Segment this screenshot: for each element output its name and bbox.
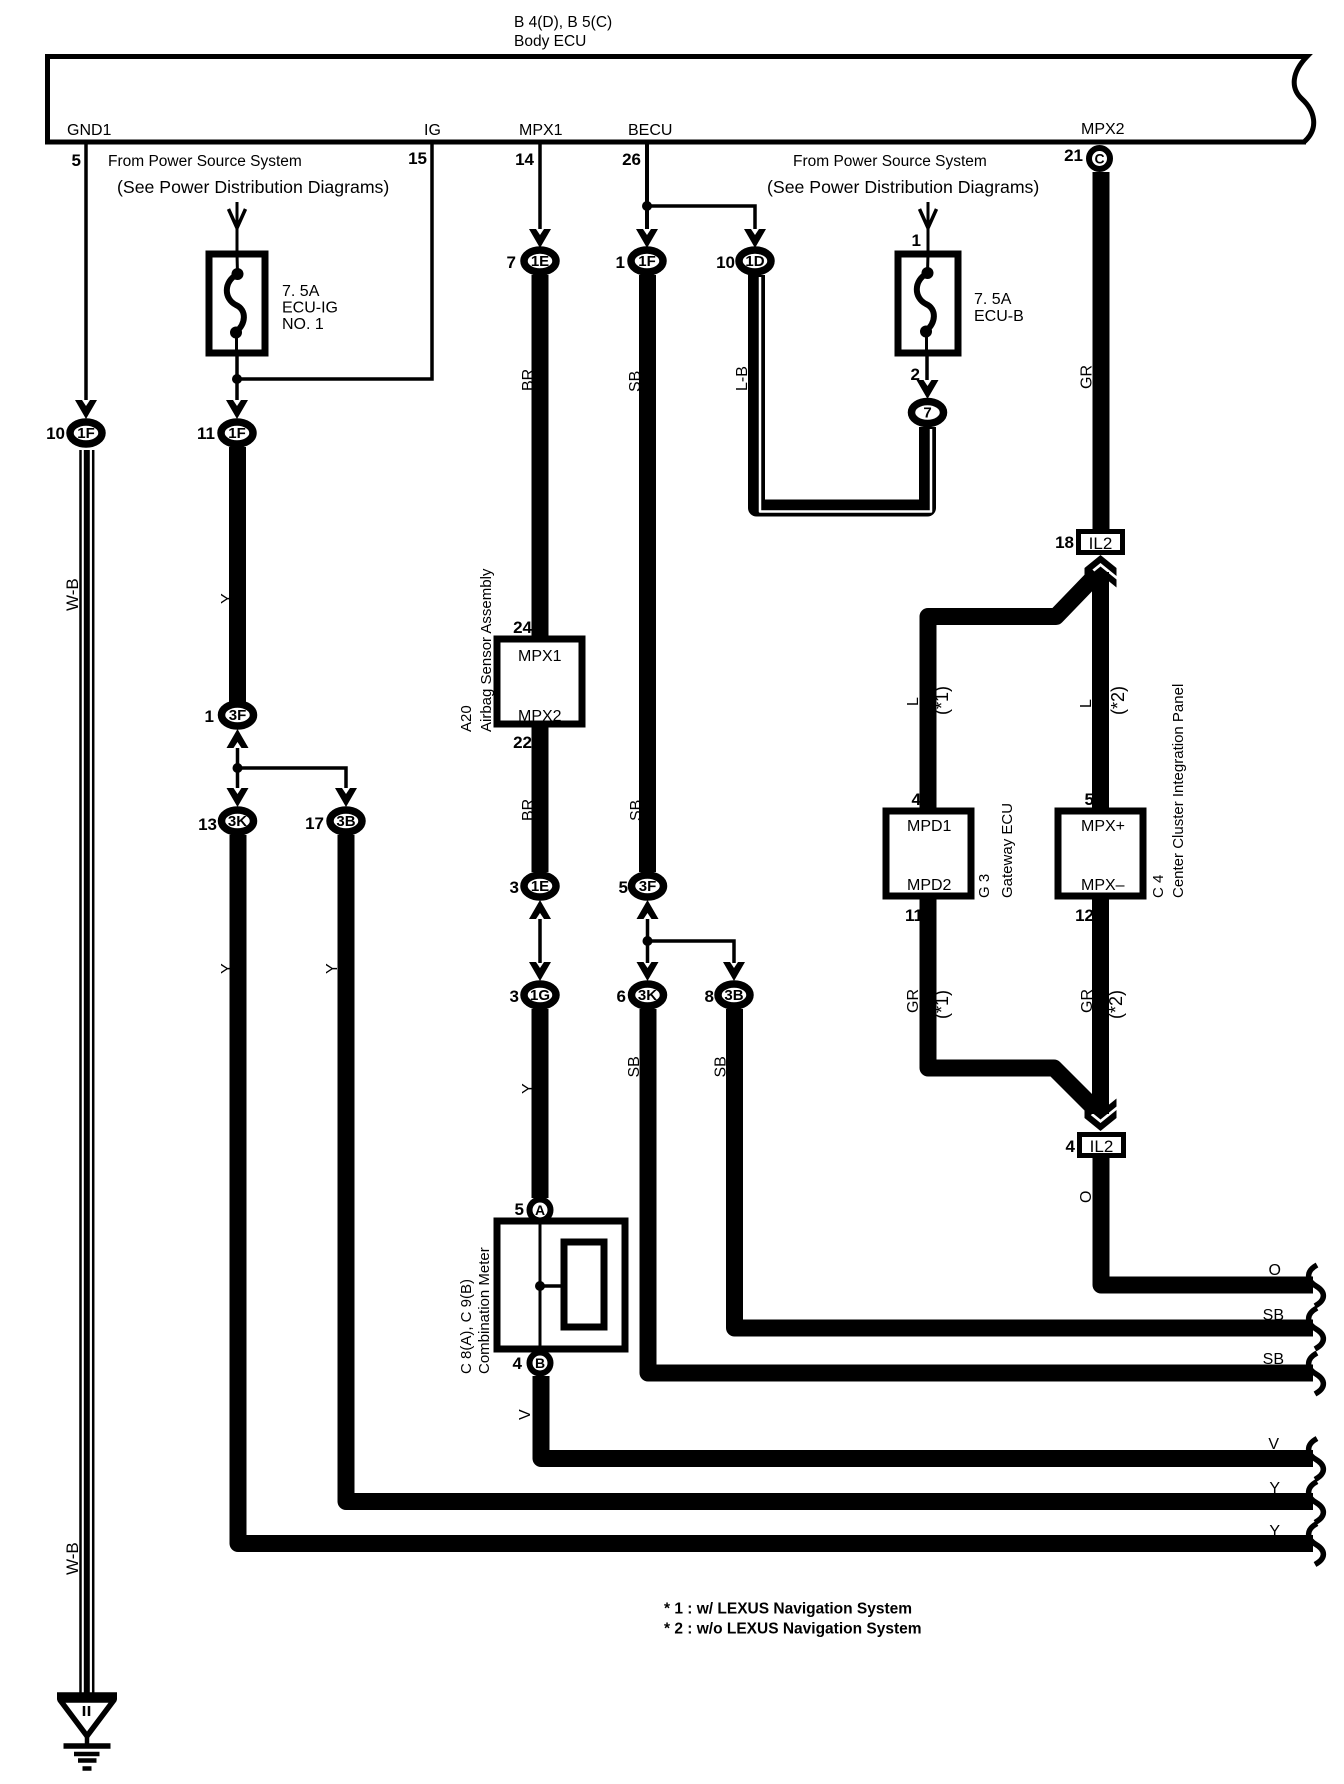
label From Power Source System (right) (767, 153, 1039, 197)
label O on wire (1078, 1191, 1095, 1203)
connector 1D (10) (739, 250, 771, 272)
svg-text:* 1 : w/ LEXUS Navigation Syst: * 1 : w/ LEXUS Navigation System (664, 1601, 912, 1618)
pin 4 number (B) (513, 1354, 523, 1373)
ground IK1 symbol (57, 1696, 117, 1769)
svg-text:1E: 1E (531, 878, 549, 895)
svg-text:L: L (905, 697, 922, 706)
label A20 Airbag Sensor Assembly (458, 568, 495, 732)
pin IG label (424, 122, 441, 139)
label Y right 1 (1269, 1480, 1280, 1497)
label Y on 3B wire (324, 963, 341, 974)
svg-text:G 3: G 3 (976, 874, 993, 898)
pin 1 number (3F) (205, 707, 214, 726)
svg-text:8: 8 (705, 987, 714, 1006)
svg-text:ECU-B: ECU-B (974, 308, 1024, 325)
connector IL2 (4) (1080, 1135, 1124, 1157)
svg-text:5: 5 (619, 878, 628, 897)
svg-text:3: 3 (510, 987, 519, 1006)
pin 26 number (622, 150, 641, 169)
torn end SB 1 (1309, 1308, 1324, 1349)
pin MPX1 label (519, 122, 563, 139)
wire W-B shielded (81, 450, 94, 1693)
wire fuse output to junction (235, 356, 239, 400)
svg-text:(*2): (*2) (1108, 686, 1128, 715)
node 3F(5) branch junction (643, 936, 653, 946)
svg-text:(*2): (*2) (1106, 990, 1126, 1019)
svg-text:5: 5 (515, 1200, 524, 1219)
connector A (5) (530, 1200, 551, 1221)
label GR (*1) (905, 989, 952, 1019)
pin 5 number (72, 151, 81, 170)
wire SB from 3B(8) to right edge (735, 1009, 1314, 1328)
svg-text:SB: SB (713, 1056, 730, 1077)
ECU A20 Airbag Sensor Assembly box (497, 639, 582, 724)
svg-text:10: 10 (46, 424, 65, 443)
svg-text:4: 4 (1066, 1137, 1076, 1156)
pin 8 number (705, 987, 714, 1006)
connector 1F (10) (70, 422, 102, 444)
arrow into 3K(13) (227, 788, 249, 807)
svg-text:22: 22 (513, 733, 532, 752)
svg-text:3F: 3F (229, 707, 247, 724)
svg-text:V: V (1268, 1436, 1279, 1453)
wire 3F(5) to 3K(6) (646, 919, 650, 963)
svg-text:7: 7 (507, 253, 516, 272)
svg-text:1: 1 (912, 231, 921, 250)
arrow into connector 1F(10) (75, 400, 97, 419)
svg-text:O: O (1078, 1191, 1095, 1203)
svg-text:W-B: W-B (63, 578, 82, 611)
svg-text:4: 4 (912, 790, 922, 809)
wire Y from 3K(13) to right edge (238, 835, 1313, 1544)
connector IL2 (18) (1079, 532, 1123, 554)
label GR (*2) (1079, 989, 1126, 1019)
node 3F branch junction (233, 763, 243, 773)
pin 4 number (IL2) (1066, 1137, 1076, 1156)
node fuse-IG junction (232, 374, 242, 384)
connector 1F (1) (631, 250, 663, 272)
pin 14 number (515, 150, 534, 169)
label fuse ECU-IG value (282, 283, 338, 333)
wire branch to 3B(17) (238, 768, 347, 788)
svg-text:Y: Y (324, 963, 341, 974)
pin 4 number (MPD1) (912, 790, 922, 809)
svg-text:Y: Y (219, 963, 236, 974)
svg-text:A20: A20 (458, 705, 475, 732)
svg-text:7. 5A: 7. 5A (282, 283, 320, 300)
svg-text:6: 6 (617, 987, 626, 1006)
wire 3F to 3K/3B junction (236, 748, 240, 788)
wire SB from 3K(6) to right edge (648, 1009, 1313, 1373)
svg-text:12: 12 (1075, 906, 1094, 925)
arrow up into 3F(1) (227, 729, 249, 748)
svg-text:SB: SB (628, 800, 645, 821)
arrow into 3B(17) (335, 788, 357, 807)
label C8(A) C9(B) Combination Meter (458, 1247, 493, 1374)
arrow into 1G(3) (529, 962, 551, 981)
wire BR airbag to 1E(3) (532, 727, 549, 872)
svg-text:1E: 1E (531, 253, 549, 270)
label Y on 3K wire (219, 963, 236, 974)
svg-text:V: V (517, 1409, 534, 1420)
wire branch to 1D(10) (647, 206, 755, 229)
svg-text:MPD1: MPD1 (907, 818, 952, 835)
chevron arrow up into IL2(18) (1085, 555, 1117, 588)
wire SB 1F(1) to 3F(5) (639, 275, 656, 872)
node BECU junction (642, 201, 652, 211)
svg-text:11: 11 (197, 424, 215, 443)
svg-text:26: 26 (622, 150, 641, 169)
svg-text:(*1): (*1) (932, 990, 952, 1019)
svg-text:Y: Y (520, 1083, 537, 1094)
pin 11 number (197, 424, 215, 443)
svg-text:MPX2: MPX2 (1081, 121, 1125, 138)
label fuse ECU-B value (974, 291, 1024, 325)
wire branch to 3B(8) (648, 941, 735, 963)
svg-text:1F: 1F (228, 425, 246, 442)
svg-text:3F: 3F (639, 878, 657, 895)
arrow into 3B(8) (723, 962, 745, 981)
connector 1G (3) (524, 984, 556, 1006)
svg-text:Gateway ECU: Gateway ECU (999, 803, 1016, 898)
pin 15 number (408, 149, 427, 168)
wire BECU pin 26 (645, 144, 649, 229)
connector C (21) (1089, 148, 1110, 169)
arrow into connector 7 (917, 380, 939, 399)
label O right (1269, 1262, 1281, 1279)
wire 1E(3) to 1G(3) (538, 919, 542, 963)
connector 3B (8) (718, 984, 750, 1006)
wire IG pin 15 (237, 144, 432, 379)
svg-text:18: 18 (1055, 533, 1074, 552)
svg-text:1F: 1F (77, 425, 95, 442)
svg-text:SB: SB (626, 1056, 643, 1077)
svg-text:BECU: BECU (628, 122, 672, 139)
pin GND1 label (67, 122, 112, 139)
svg-text:10: 10 (716, 253, 735, 272)
label MPD2 (907, 877, 952, 894)
arrow into connector 1F(11) (226, 400, 248, 419)
wire fuse ECU-B output (925, 356, 929, 380)
label SB on 3K wire (626, 1056, 643, 1077)
svg-text:3: 3 (510, 878, 519, 897)
ECU C8 Combination Meter box (497, 1221, 625, 1349)
svg-text:7: 7 (923, 405, 931, 422)
pin 12 number (MPX-) (1075, 906, 1094, 925)
arrow up into 3F(5) (637, 900, 659, 919)
svg-text:3K: 3K (228, 813, 247, 830)
label Y upper (219, 593, 236, 604)
svg-text:From Power Source System: From Power Source System (793, 153, 987, 170)
svg-text:IG: IG (424, 122, 441, 139)
svg-text:Combination Meter: Combination Meter (476, 1247, 493, 1374)
connector 3K (6) (632, 984, 664, 1006)
label SB upper (627, 371, 644, 392)
pin 5 number (MPX+) (1085, 790, 1094, 809)
svg-text:SB: SB (1263, 1307, 1284, 1324)
label V right (1268, 1436, 1279, 1453)
pin 7 number (507, 253, 516, 272)
svg-text:SB: SB (1263, 1351, 1284, 1368)
svg-text:1: 1 (616, 253, 625, 272)
svg-text:3B: 3B (724, 987, 743, 1004)
wire Y 1G to combination meter (532, 1009, 549, 1198)
wire GND1 pin 5 (84, 144, 88, 400)
pin 22 number (513, 733, 532, 752)
connector 3K (13) (222, 810, 254, 832)
svg-text:From Power Source System: From Power Source System (108, 153, 302, 170)
wire inside meter (539, 1223, 542, 1350)
wire GR from C to IL2(18) (1093, 172, 1110, 531)
connector 3F (1) (222, 704, 254, 726)
svg-text:13: 13 (198, 815, 217, 834)
label MPX+ (1081, 818, 1125, 835)
svg-text:4: 4 (513, 1354, 523, 1373)
label SB on 3B wire (713, 1056, 730, 1077)
connector 3B (17) (330, 810, 362, 832)
label W-B lower (63, 1542, 82, 1575)
pin 10 number (46, 424, 65, 443)
pin 11 number (MPD2) (905, 906, 923, 925)
connector 1E (7) (524, 250, 556, 272)
svg-text:O: O (1269, 1262, 1281, 1279)
torn end O (1309, 1265, 1324, 1306)
pin 24 number (513, 618, 532, 637)
svg-text:1D: 1D (745, 253, 764, 270)
label V on meter output (517, 1409, 534, 1420)
svg-text:C: C (1094, 151, 1104, 167)
svg-text:A: A (535, 1202, 545, 1218)
label SB right 1 (1263, 1307, 1284, 1324)
svg-text:L: L (1078, 699, 1095, 708)
svg-text:MPX2: MPX2 (518, 708, 562, 725)
pin 1 number (1F) (616, 253, 625, 272)
svg-text:MPX+: MPX+ (1081, 818, 1125, 835)
ECU U1 Body ECU box (45, 57, 1314, 145)
svg-text:B 4(D), B 5(C): B 4(D), B 5(C) (514, 14, 612, 31)
chevron arrow down into IL2(4) (1085, 1099, 1117, 1132)
label Y on meter wire (520, 1083, 537, 1094)
svg-text:BR: BR (520, 799, 537, 821)
svg-text:17: 17 (305, 814, 324, 833)
label From Power Source System (left) (108, 153, 389, 197)
pin 18 number (1055, 533, 1074, 552)
svg-text:GR: GR (1079, 365, 1096, 389)
label L-B (734, 366, 751, 391)
svg-text:7. 5A: 7. 5A (974, 291, 1012, 308)
svg-text:BR: BR (520, 369, 537, 391)
svg-text:(*1): (*1) (932, 686, 952, 715)
pin 2 number (fuse) (911, 365, 920, 384)
pin 17 number (305, 814, 324, 833)
power feed arrow (right) (920, 202, 937, 254)
svg-text:Y: Y (219, 593, 236, 604)
connector 1E (3) (524, 875, 556, 897)
wire O IL2(4) to right edge (1101, 1158, 1313, 1285)
pin 10 number (1D) (716, 253, 735, 272)
footnote 2 (664, 1621, 922, 1638)
pin 13 number (198, 815, 217, 834)
wire to meter resistor (540, 1284, 564, 1288)
pin 5 number (3F) (619, 878, 628, 897)
footnote 1 (664, 1601, 912, 1618)
svg-text:L-B: L-B (734, 366, 751, 391)
connector 1F (11) (221, 422, 253, 444)
pin 5 number (A) (515, 1200, 524, 1219)
svg-text:ECU-IG: ECU-IG (282, 300, 338, 317)
svg-text:24: 24 (513, 618, 532, 637)
label G3 Gateway ECU (976, 803, 1016, 898)
svg-text:(See Power Distribution Diagra: (See Power Distribution Diagrams) (117, 177, 389, 197)
label MPD1 (907, 818, 952, 835)
torn end Y 1 (1309, 1482, 1324, 1523)
fuse F1 ECU-IG NO.1 (209, 254, 265, 356)
pin 6 number (617, 987, 626, 1006)
ECU G3 Gateway ECU box (886, 811, 971, 896)
label Body ECU title (514, 14, 612, 50)
svg-text:GR: GR (1079, 989, 1096, 1013)
wire BR 1E to airbag box (532, 275, 549, 639)
pin BECU label (628, 122, 672, 139)
connector B (4) (530, 1353, 551, 1374)
label Y right 2 (1269, 1523, 1280, 1540)
label L (*2) (1078, 686, 1128, 715)
svg-text:Y: Y (1269, 1523, 1280, 1540)
label MPX- (1081, 877, 1125, 894)
label BR lower (520, 799, 537, 821)
arrow into connector 1D(10) (744, 229, 766, 248)
svg-text:5: 5 (72, 151, 81, 170)
label GR upper (1079, 365, 1096, 389)
label C4 Center Cluster Integration Panel (1150, 684, 1187, 898)
node meter junction (535, 1281, 545, 1291)
svg-text:GR: GR (905, 989, 922, 1013)
svg-text:1: 1 (205, 707, 214, 726)
svg-text:5: 5 (1085, 790, 1094, 809)
wire V from meter to right edge (541, 1376, 1313, 1459)
svg-text:NO. 1: NO. 1 (282, 316, 324, 333)
label BR upper (520, 369, 537, 391)
svg-text:3K: 3K (638, 987, 657, 1004)
svg-text:GND1: GND1 (67, 122, 112, 139)
arrow up into 1E(3) (529, 900, 551, 919)
label SB right 2 (1263, 1351, 1284, 1368)
power feed arrow (left) (229, 202, 246, 254)
torn end V (1309, 1439, 1324, 1480)
arrow into connector 1F(1) (636, 229, 658, 248)
wire L (*1) branch to MPD1 (928, 574, 1097, 808)
svg-text:C 8(A), C 9(B): C 8(A), C 9(B) (458, 1279, 475, 1374)
svg-text:14: 14 (515, 150, 534, 169)
svg-text:1F: 1F (638, 253, 656, 270)
pin 3 number (1G) (510, 987, 519, 1006)
torn end SB 2 (1309, 1353, 1324, 1394)
svg-text:3B: 3B (336, 813, 355, 830)
label MPX1 in airbag box (518, 648, 562, 665)
svg-text:Center Cluster Integration Pan: Center Cluster Integration Panel (1170, 684, 1187, 898)
connector 7 (912, 402, 944, 424)
arrow into 3K(6) (637, 962, 659, 981)
svg-text:B: B (535, 1355, 545, 1371)
arrow into connector 1E(7) (529, 229, 551, 248)
svg-text:SB: SB (627, 371, 644, 392)
svg-text:MPD2: MPD2 (907, 877, 952, 894)
wire L (*2) IL2 to MPX+ (1092, 572, 1109, 808)
torn end Y 2 (1309, 1524, 1324, 1565)
wire GR (*1) MPD2 to IL2(4) (928, 896, 1096, 1110)
svg-text:Airbag Sensor Assembly: Airbag Sensor Assembly (478, 568, 495, 732)
svg-text:MPX1: MPX1 (519, 122, 563, 139)
wire L-B loop to connector 7 (757, 275, 932, 512)
label L (*1) (905, 686, 952, 715)
svg-text:(See Power Distribution Diagra: (See Power Distribution Diagrams) (767, 177, 1039, 197)
ECU C4 Center Cluster box (1058, 811, 1143, 896)
svg-text:C 4: C 4 (1150, 875, 1167, 898)
pin MPX2 label (1081, 121, 1125, 138)
wire Y from 3B(17) to right edge (346, 835, 1313, 1502)
pin 21 number (1064, 146, 1083, 165)
wire MPX1 pin 14 (538, 144, 542, 229)
svg-text:* 2 : w/o LEXUS Navigation Sys: * 2 : w/o LEXUS Navigation System (664, 1621, 922, 1638)
label MPX2 in airbag box (518, 708, 562, 725)
fuse F2 ECU-B (898, 254, 958, 356)
pin 3 number (1E) (510, 878, 519, 897)
svg-text:MPX1: MPX1 (518, 648, 562, 665)
pin 1 number (fuse) (912, 231, 921, 250)
wire GR (*2) MPX- to IL2(4) (1092, 896, 1109, 1114)
svg-text:IL2: IL2 (1090, 1137, 1114, 1156)
label SB mid (628, 800, 645, 821)
svg-text:1G: 1G (530, 987, 550, 1004)
svg-text:MPX–: MPX– (1081, 877, 1125, 894)
svg-text:21: 21 (1064, 146, 1083, 165)
svg-text:W-B: W-B (63, 1542, 82, 1575)
svg-text:Y: Y (1269, 1480, 1280, 1497)
svg-text:IL2: IL2 (1089, 534, 1113, 553)
svg-text:Body ECU: Body ECU (514, 33, 586, 50)
label W-B upper (63, 578, 82, 611)
wire Y 1F(11) to 3F(1) (229, 447, 246, 703)
connector 3F (5) (632, 875, 664, 897)
resistor in meter (564, 1242, 604, 1327)
svg-text:15: 15 (408, 149, 427, 168)
